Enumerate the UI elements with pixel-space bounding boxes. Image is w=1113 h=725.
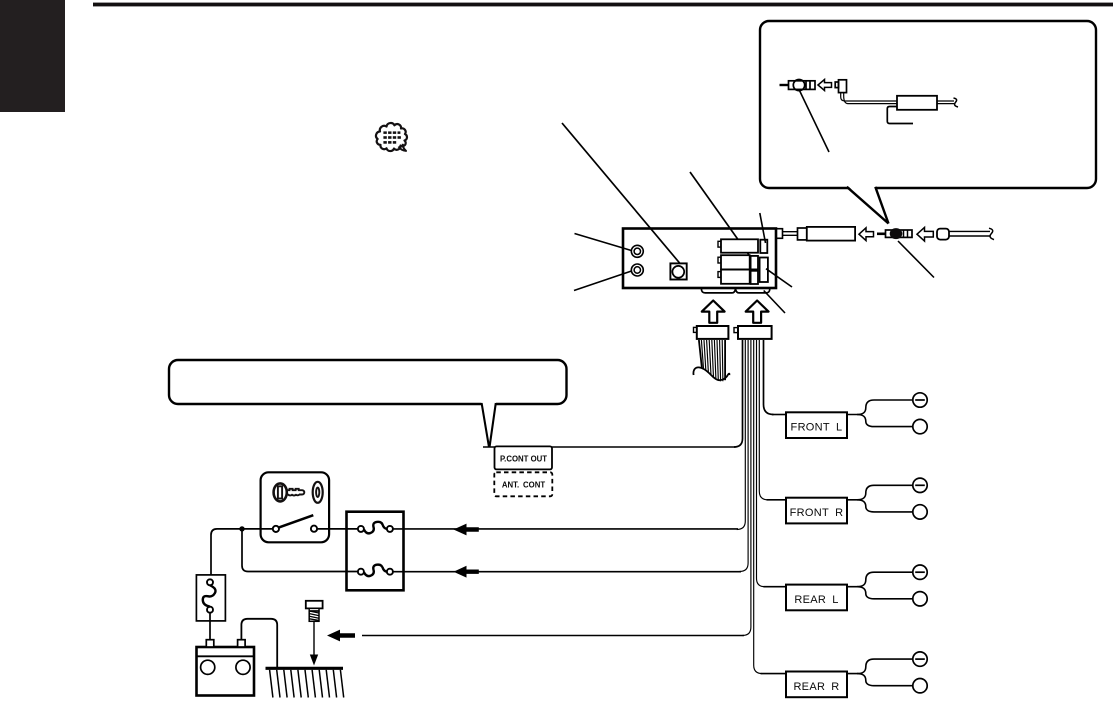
small rect top right: [760, 240, 767, 253]
screw arrow down: [313, 621, 315, 656]
fuse 1: [358, 526, 364, 532]
small rect mid: [751, 256, 758, 270]
harness block 1: [694, 326, 729, 339]
switch contacts and lever: [273, 526, 279, 532]
leader to RCA top: [575, 234, 634, 252]
open arrow left: [859, 228, 874, 241]
top rule: [93, 3, 1113, 7]
fuse1 wire right with arrow: [393, 528, 738, 530]
small rect bottom: [751, 271, 758, 284]
leader from motorola plug: [898, 241, 934, 278]
wire switch to fusebox: [317, 528, 358, 530]
leader (long) to middle connector: [690, 172, 754, 262]
RCA jack top: [631, 245, 643, 257]
ribbon of wires block1 (cut): [699, 340, 725, 381]
svg-text:ANT. CONT: ANT. CONT: [502, 481, 546, 490]
antenna plug collar: [798, 228, 807, 240]
black arrow to screw area: [327, 630, 355, 642]
antenna jack square: [670, 263, 686, 279]
ANT. CONT box (dashed): [494, 472, 552, 496]
wire from + terminal to ground strap: [241, 619, 277, 667]
wire right of filter with break: [937, 98, 958, 107]
car antenna cable end: [937, 228, 994, 239]
brace under connectors: [701, 289, 769, 293]
wire from plug to filter: [841, 93, 897, 104]
KENWOOD balloon logo: [376, 123, 407, 151]
harness block 2: [734, 326, 772, 339]
fuse 2: [358, 569, 364, 575]
ribbon cut wave: [693, 367, 729, 380]
wire holder to battery: [209, 613, 211, 640]
antenna plug sleeve: [807, 227, 855, 241]
leader to small top rect: [760, 213, 766, 243]
wire junction down and right to fuse2: [242, 529, 358, 572]
antenna plug icon in callout: [780, 80, 816, 91]
ribbon fan into bundle: [734, 340, 774, 674]
open arrow left (in callout): [818, 80, 832, 91]
leader (long) to antenna jack: [562, 123, 680, 264]
RCA jack bottom: [631, 264, 643, 276]
ground wire: [362, 635, 744, 637]
open arrow left 2: [917, 227, 933, 241]
leader to RCA bottom: [574, 271, 633, 291]
hook wire under filter: [887, 107, 913, 124]
P.CONT wire: [483, 446, 736, 448]
up arrow 1: [702, 301, 725, 323]
junction dot: [239, 526, 244, 531]
svg-text:P.CONT OUT: P.CONT OUT: [500, 454, 547, 463]
fuse2 wire right with arrow: [393, 571, 741, 573]
callout tail: [847, 185, 889, 224]
antenna note callout box: [760, 21, 1096, 188]
page corner black tab: [0, 0, 65, 112]
tall rect right: [760, 258, 768, 283]
svg-text:FRONT L: FRONT L: [791, 422, 843, 434]
motorola plug (side view): [877, 228, 912, 239]
key icon: [274, 482, 323, 503]
leader from plug icon: [800, 91, 830, 153]
leader from tall right rect: [766, 269, 792, 287]
svg-text:FRONT R: FRONT R: [790, 507, 844, 519]
filter box (in callout): [897, 96, 937, 110]
connector rect C: [718, 272, 721, 278]
svg-text:REAR R: REAR R: [793, 681, 839, 693]
leader from bottom small rect: [764, 291, 785, 314]
L-plug connector (in callout): [835, 80, 846, 93]
P.CONT OUT box: [495, 446, 553, 469]
connector rect A: [718, 239, 768, 284]
wire stub from unit: [781, 232, 798, 236]
wire into switch from left, elbow and down to fuse holder: [211, 529, 273, 575]
connector rect B: [718, 257, 721, 263]
svg-text:REAR L: REAR L: [794, 594, 838, 606]
up arrow 2: [746, 301, 769, 323]
